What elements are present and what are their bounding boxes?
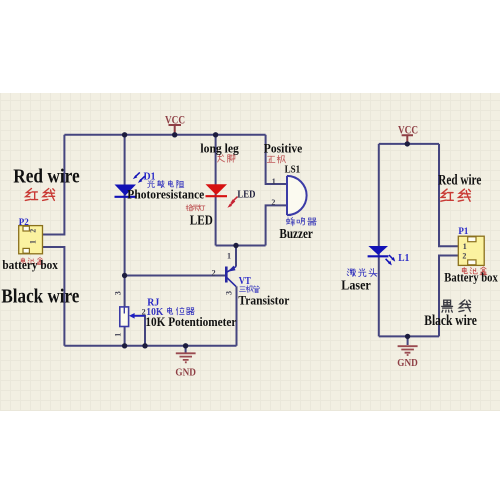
wire laser branch vertical [378,144,380,337]
LED symbol [206,184,238,208]
svg-text:Buzzer: Buzzer [279,226,313,241]
svg-text:VT: VT [239,276,251,287]
wire top rail left circuit [64,134,265,136]
svg-text:Battery box: Battery box [444,269,498,284]
svg-text:2: 2 [462,251,466,260]
schematic grid [0,93,500,411]
wire right vertical lower (battery P1 pin2 to ground rail) [439,256,458,337]
label 黑线 right [442,300,471,312]
svg-text:GND: GND [397,357,418,369]
battery box P2 [19,226,43,254]
wire buzzer pin2 down leg [266,205,287,245]
vcc symbol right [402,135,413,144]
svg-text:battery box: battery box [2,258,58,272]
svg-text:3: 3 [225,291,234,295]
svg-text:Transistor: Transistor [238,294,289,308]
buzzer LS1 symbol [287,176,307,215]
label 红线 left [25,188,54,200]
svg-text:2: 2 [28,229,37,233]
svg-text:P1: P1 [458,226,468,236]
wire right vertical upper (to battery P1 pin1) [439,144,458,246]
svg-text:3: 3 [114,291,123,295]
label 长脚 [218,154,235,162]
svg-text:Positive: Positive [264,142,303,156]
ground symbol right [398,346,418,355]
ground symbol left [176,353,196,362]
svg-text:Red wire: Red wire [438,173,481,189]
svg-text:Black wire: Black wire [1,286,79,308]
label 电池盒 right [462,267,487,275]
wire left vertical lower (battery P2 pin1 to ground rail) [43,247,65,346]
svg-text:1: 1 [28,240,37,244]
svg-text:P2: P2 [19,217,29,227]
wire bottom rail left circuit [64,345,236,347]
svg-text:LS1: LS1 [285,165,301,176]
wire transistor base horizontal [125,275,226,277]
wire photoresistor branch vertical [124,135,126,346]
label 红线 right [441,189,471,201]
label 蜂鸣器 [286,217,316,225]
svg-text:D1: D1 [144,172,156,183]
label 光敏电阻 [148,180,184,188]
svg-text:LED: LED [190,214,213,229]
svg-text:L1: L1 [398,253,409,264]
wire GND stub right [407,336,409,345]
potentiometer RJ symbol [120,307,145,327]
svg-text:LED: LED [237,190,255,201]
svg-text:VCC: VCC [165,112,185,126]
svg-text:1: 1 [114,333,123,337]
label 正极 [267,155,285,163]
battery box P1 [458,236,484,265]
svg-text:Red wire: Red wire [13,166,80,188]
wire buzzer pin1 leg from rail [266,135,287,184]
photoresistor D1 symbol [115,172,145,196]
svg-text:2: 2 [271,198,275,207]
wire LED cathode to buzzer node [216,245,266,247]
wire collector vertical [235,246,237,267]
junction node dots [122,132,410,348]
wire top rail right circuit [379,143,439,145]
svg-text:GND: GND [175,366,196,378]
transistor VT symbol [226,266,236,287]
label 激光头 [347,268,377,276]
svg-text:1: 1 [463,242,467,251]
label 三极管 [239,286,259,293]
wire left vertical upper (battery P2 pin2 to VCC rail) [43,135,65,235]
laser diode L1 symbol [368,246,396,265]
svg-text:1: 1 [227,251,231,260]
svg-text:2: 2 [212,269,216,278]
svg-text:1: 1 [272,177,276,186]
svg-text:VCC: VCC [398,123,418,137]
svg-text:long leg: long leg [200,142,239,156]
label 电池盒 left [21,258,43,265]
svg-text:Photoresistance: Photoresistance [127,188,204,202]
svg-text:10K Potentiometer: 10K Potentiometer [145,315,236,329]
wire GND stub left [185,346,187,353]
svg-text:Laser: Laser [341,278,371,293]
wire potentiometer wiper to bottom rail [134,316,146,346]
vcc symbol left [169,125,182,135]
label 指示灯 [186,205,205,211]
wire bottom rail right circuit [379,335,439,337]
wire LED branch vertical [215,135,217,246]
wire emitter to bottom rail [236,286,238,346]
schematic sheet background [0,93,500,411]
svg-text:Black wire: Black wire [424,313,477,329]
